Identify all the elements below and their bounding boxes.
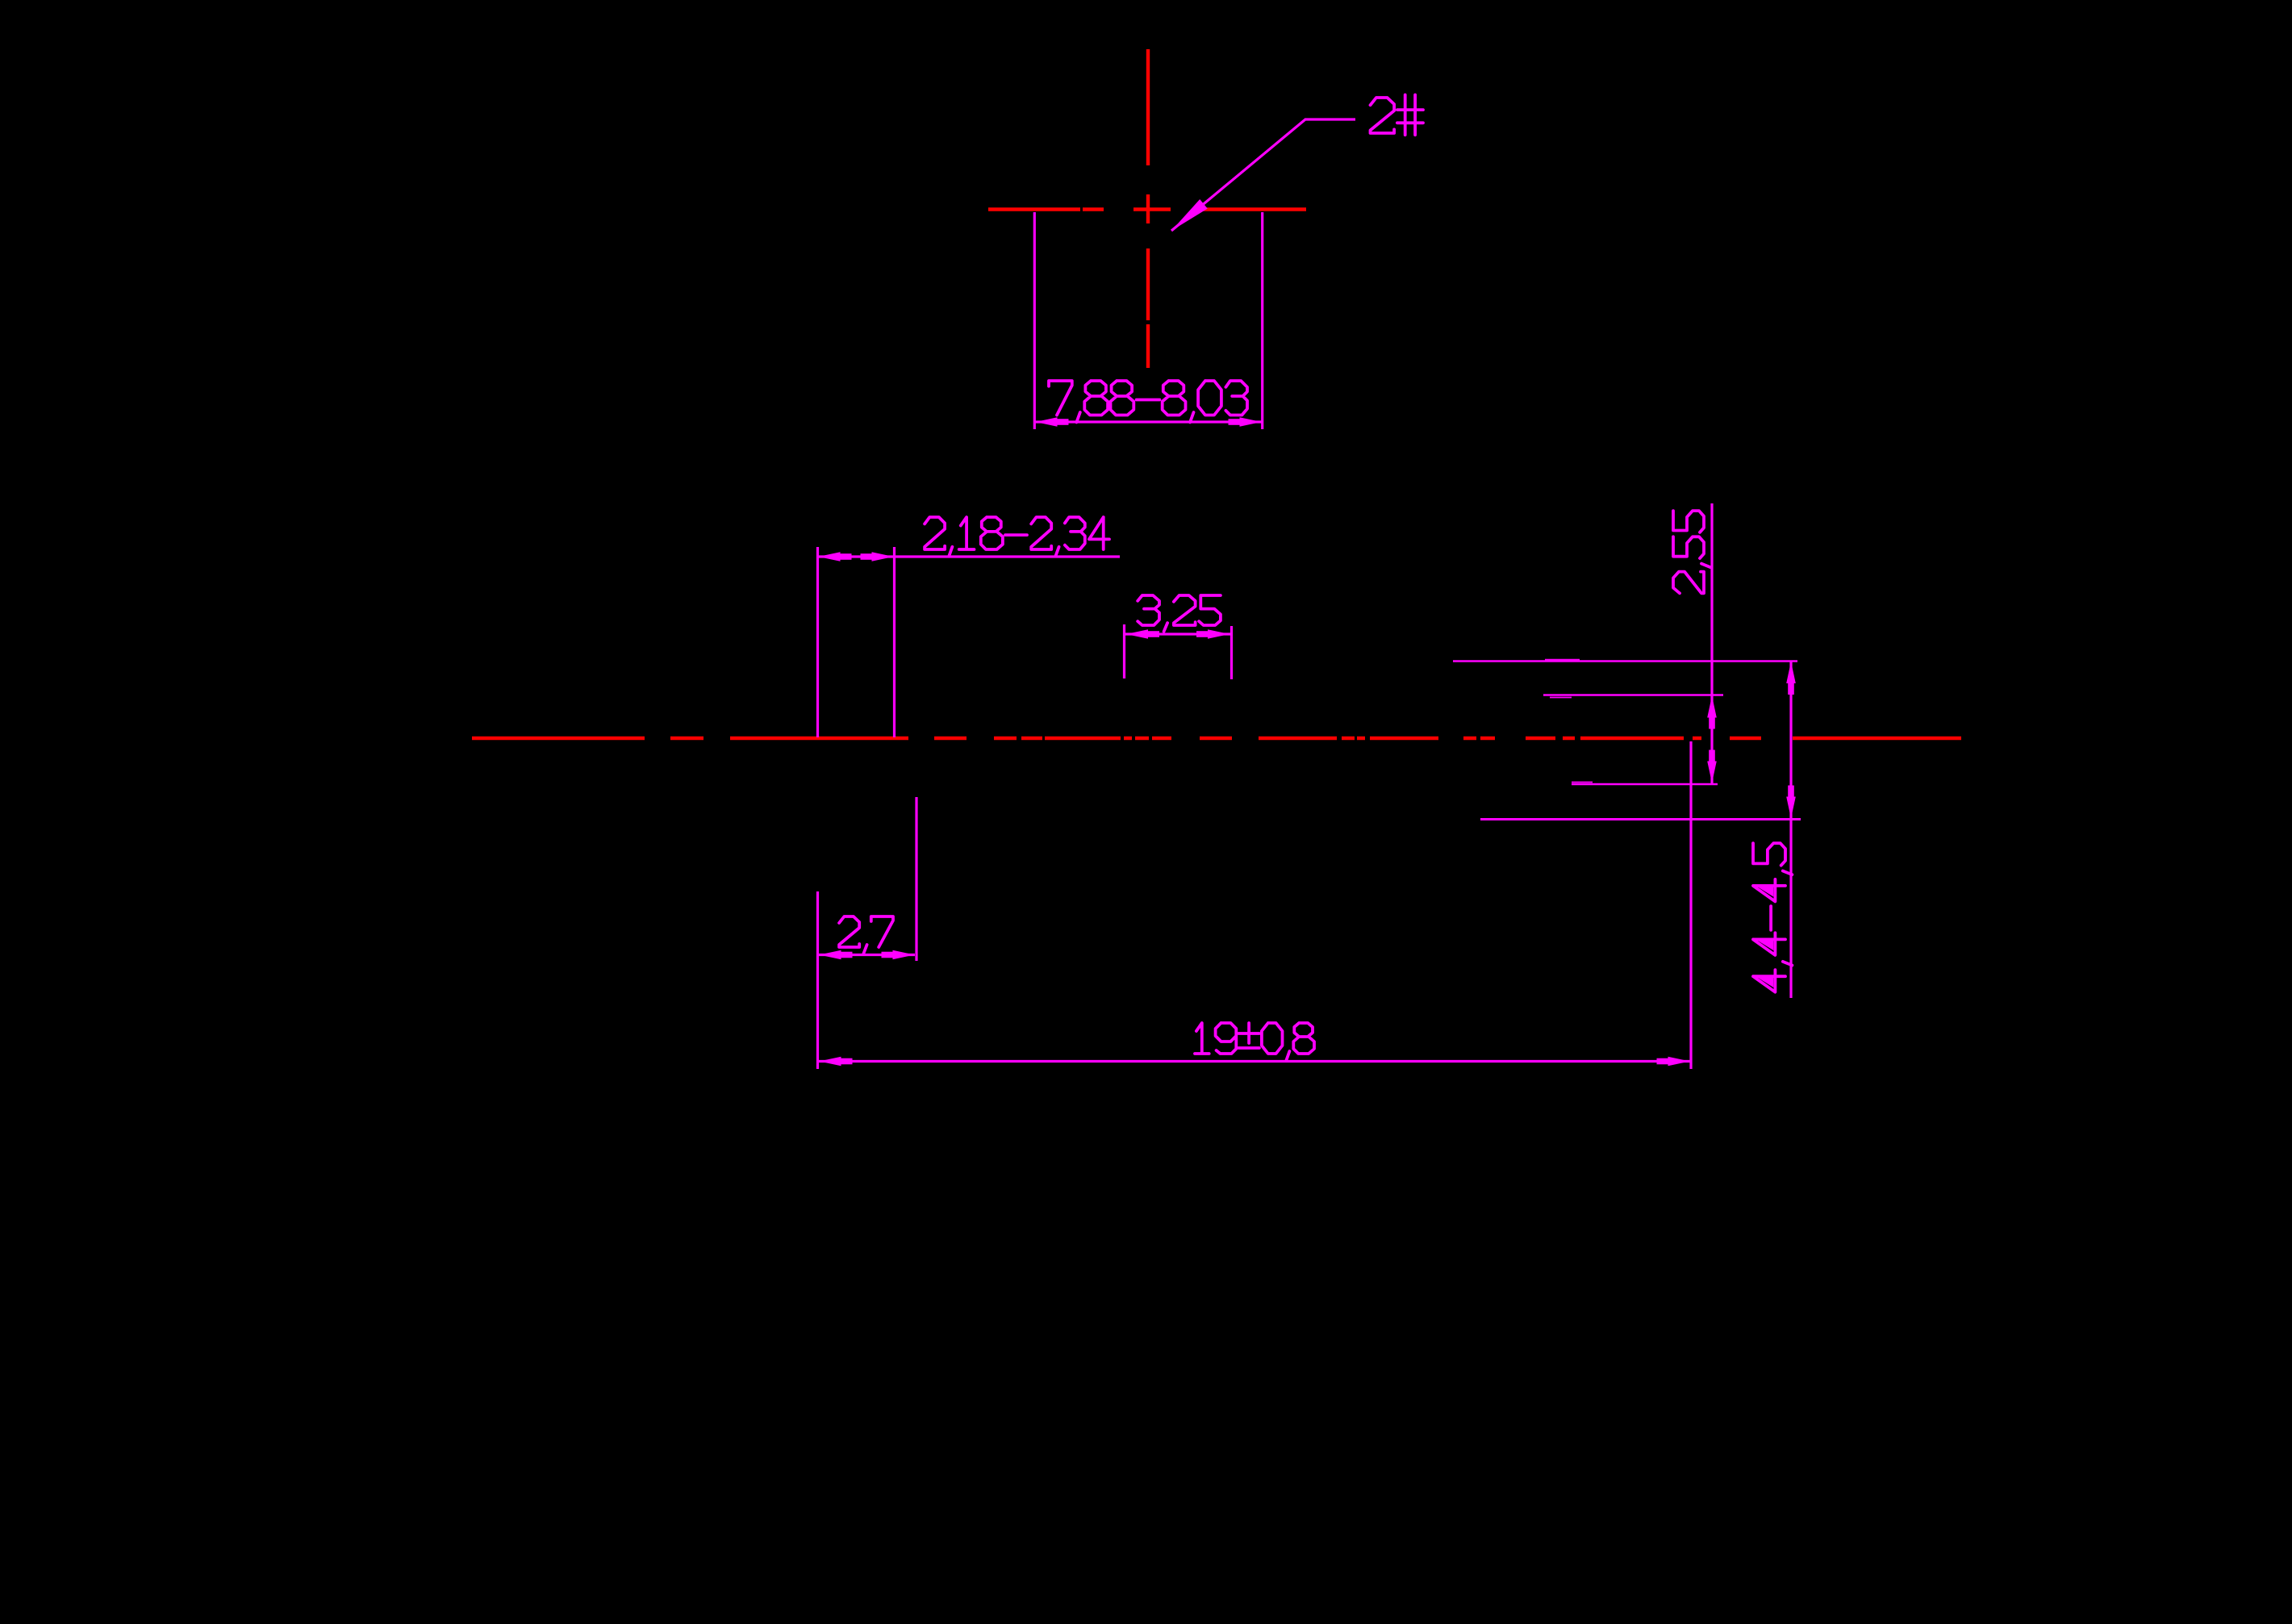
dimension text 19±0.8 xyxy=(1195,1023,1314,1060)
dimension text 2.18-2.34 xyxy=(925,517,1109,556)
label text 2# xyxy=(1371,95,1424,136)
dimension text 2.7 xyxy=(839,916,893,954)
extension lines 2.18-2.34 xyxy=(816,547,819,737)
part outline line L4 xyxy=(1480,818,1801,820)
red horizontal centerline (top view) xyxy=(988,207,1306,211)
dimension line 2.55 (vertical) xyxy=(1710,503,1713,783)
extension line x1136 xyxy=(915,797,917,961)
dimension line 7.88-8.03 xyxy=(1034,420,1262,423)
dimension text 3.25 xyxy=(1138,595,1221,632)
dimension line 2.18-2.34 xyxy=(818,555,1121,557)
extension line x2096 xyxy=(1689,741,1692,1069)
extension lines 7.88-8.03 xyxy=(1033,212,1036,429)
dimension line 19±0.8 xyxy=(819,1060,1690,1062)
dimension text 7.88-8.03 xyxy=(1049,381,1247,422)
leader line 2# xyxy=(1171,119,1355,231)
dimension line 2.7 xyxy=(819,954,915,956)
dimension line 4.4-4.5 (vertical) xyxy=(1789,661,1792,998)
red horizontal centerline (main view) xyxy=(472,737,1961,740)
extension line x1013 lower xyxy=(816,891,819,1069)
part outline line L2 xyxy=(1543,694,1723,695)
part outline line L1 xyxy=(1453,660,1797,662)
extension ticks 3.25 xyxy=(1123,624,1125,678)
part outline line L3 xyxy=(1572,783,1718,785)
dimension line 3.25 xyxy=(1125,632,1230,635)
dimension text 2.55 (rotated) xyxy=(1673,511,1710,593)
dimension text 4.4-4.5 (rotated) xyxy=(1753,843,1792,992)
red vertical centerline (top view) xyxy=(1146,49,1150,368)
